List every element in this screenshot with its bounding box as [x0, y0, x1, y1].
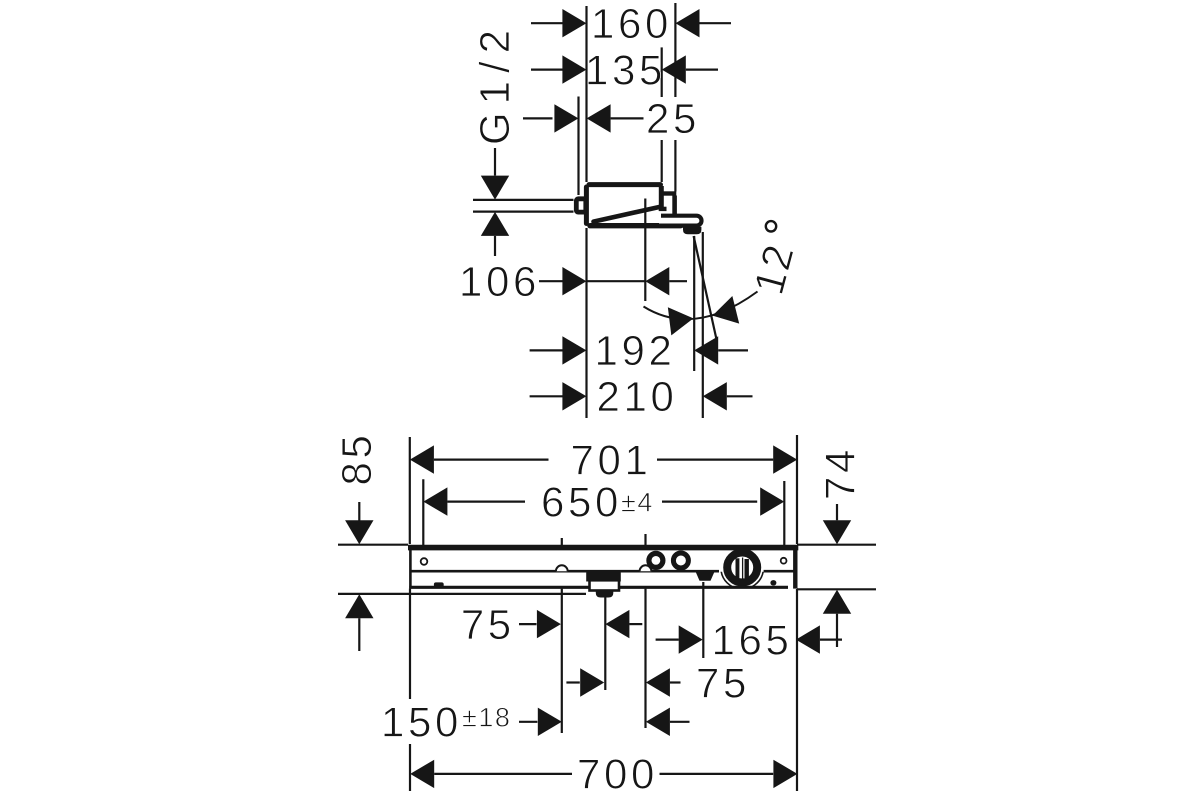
dimension 650 +-4 [423, 487, 447, 515]
spout arm (side view, white slot) [659, 218, 699, 224]
wall stub top edge [661, 191, 676, 195]
spout bottom tongue [596, 591, 614, 598]
svg-text:G1/2: G1/2 [471, 22, 518, 145]
bar divider line left part [410, 570, 719, 573]
G1/2 inlet tab on body left [576, 199, 586, 212]
aerator block under spout tip [683, 227, 701, 235]
dimension 192 [530, 349, 563, 351]
bar left edge [409, 545, 412, 589]
extension line 650 right [783, 481, 785, 545]
left mounting foot [434, 582, 444, 587]
thermostat backplate circle (clipped below divider) [721, 547, 764, 590]
mixer body top edge [589, 182, 661, 187]
left reference line (bar top extended) [338, 544, 408, 546]
svg-text:75: 75 [696, 659, 750, 706]
thermostat handle ring [727, 553, 757, 583]
handle grip center line [742, 558, 744, 580]
extension line 701/700 right [796, 435, 798, 544]
cold supply bump on divider [640, 565, 652, 571]
svg-text:25: 25 [646, 95, 700, 142]
svg-text:210: 210 [597, 373, 678, 420]
dimension 210 [530, 395, 563, 397]
right mounting foot [770, 580, 776, 585]
spout front view escutcheon cap [586, 570, 621, 582]
dimension 75 (spout to cold supply) [566, 681, 579, 683]
svg-text:165: 165 [712, 616, 793, 663]
extension line 701/700 left [409, 437, 411, 544]
angle dimension arc 12deg [644, 292, 758, 320]
svg-text:700: 700 [577, 751, 658, 798]
12 degree slant stream line [694, 236, 717, 338]
dimension 160 [531, 22, 563, 24]
dimension 700 [410, 760, 434, 788]
svg-text:85: 85 [333, 432, 380, 486]
shower outlet tab [696, 572, 714, 580]
bar front view white body [409, 545, 797, 589]
mixer body left edge [584, 187, 589, 224]
mixer body side view: white fill [584, 182, 664, 228]
extension line x=702.8 (210) [702, 232, 704, 418]
extension line x=694.2 (192) [693, 236, 695, 371]
svg-text:±18: ±18 [462, 703, 511, 733]
bar bottom edge [409, 586, 788, 589]
bar right edge [793, 547, 797, 589]
spout front box [590, 580, 620, 590]
dimension 165 [656, 638, 679, 640]
extension line x=578.5 (25 offset) [577, 97, 579, 196]
bar top thick edge [408, 545, 798, 551]
hot supply bump on divider [556, 565, 568, 571]
dimension 25 [523, 117, 553, 119]
degree symbol of 12deg label [766, 221, 776, 231]
extension line x=661.7 (135) [661, 47, 663, 97]
spout center line x=605.3 [604, 598, 606, 691]
hot supply center line x=561.8 [561, 538, 563, 733]
extension line 650 left [422, 479, 424, 545]
mixer body bottom bar [590, 223, 681, 228]
mixer interior diagonal wedge line [594, 207, 659, 222]
extension line x=675.4 (160) [674, 3, 676, 97]
handle grip bar right [745, 559, 749, 578]
svg-text:12: 12 [745, 238, 804, 299]
dimension 701 [410, 445, 434, 473]
svg-text:±4: ±4 [621, 488, 654, 518]
svg-text:106: 106 [459, 258, 540, 305]
svg-text:650: 650 [541, 478, 622, 525]
extension line x=586.5 (wall face) [585, 6, 587, 182]
svg-text:74: 74 [817, 446, 864, 500]
bar divider line right part [764, 570, 795, 573]
mixer body right edge [659, 186, 664, 208]
left reference line (spout bottom level 85) [338, 593, 586, 595]
right reference line (bar top extended) [797, 544, 876, 546]
step under body right edge [659, 207, 667, 211]
svg-text:150: 150 [381, 699, 462, 746]
handle grip bar left [736, 558, 740, 578]
svg-text:135: 135 [585, 46, 666, 93]
select button ring 2 [673, 553, 688, 568]
cold supply center line x=645.5 [644, 534, 646, 728]
svg-text:75: 75 [461, 601, 515, 648]
left screw hole [421, 558, 428, 565]
svg-text:701: 701 [571, 436, 652, 483]
dimension 135 [531, 68, 563, 70]
extension line x=645.3 (106, spout outlet) [644, 199, 646, 302]
shower outlet center line x=703.3 [702, 582, 704, 658]
right screw hole [781, 558, 787, 564]
right reference line (bar bottom extended) [797, 588, 876, 590]
svg-text:160: 160 [591, 0, 672, 47]
wall stub right edge [672, 196, 677, 215]
select button ring 1 [649, 553, 663, 567]
svg-text:192: 192 [595, 327, 676, 374]
